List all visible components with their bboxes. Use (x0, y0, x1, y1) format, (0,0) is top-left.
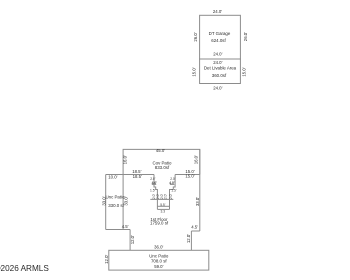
svg-text:45.0': 45.0' (156, 148, 165, 153)
svg-text:10.0': 10.0' (108, 174, 117, 179)
svg-text:26.0': 26.0' (243, 32, 248, 41)
svg-text:833.0sf: 833.0sf (155, 165, 170, 170)
svg-text:24.0': 24.0' (213, 9, 222, 14)
svg-text:33.0': 33.0' (101, 196, 106, 205)
svg-text:12.0': 12.0' (186, 234, 191, 243)
svg-text:330.0 sf: 330.0 sf (108, 203, 124, 208)
svg-text:624.0sf: 624.0sf (211, 38, 226, 43)
svg-text:24.0': 24.0' (213, 52, 222, 57)
svg-text:1.5': 1.5' (150, 188, 156, 192)
svg-text:15.0': 15.0' (242, 67, 247, 76)
svg-text:33.0': 33.0' (195, 197, 200, 206)
svg-text:15.0': 15.0' (185, 174, 194, 179)
svg-text:1.5': 1.5' (171, 188, 177, 192)
svg-text:24.0': 24.0' (213, 85, 222, 90)
svg-text:4.5': 4.5' (191, 225, 198, 230)
svg-text:36.0': 36.0' (154, 245, 163, 250)
svg-text:4.0': 4.0' (152, 181, 158, 185)
svg-text:16.0': 16.0' (194, 155, 199, 164)
svg-text:3.3: 3.3 (161, 210, 166, 214)
svg-text:59.0': 59.0' (154, 264, 163, 269)
svg-text:4.5': 4.5' (122, 224, 129, 229)
svg-text:Det Livable Area: Det Livable Area (204, 65, 237, 70)
svg-text:5.5': 5.5' (160, 203, 166, 207)
svg-text:1759.0 sf: 1759.0 sf (150, 221, 169, 226)
svg-text:15.0': 15.0' (191, 67, 196, 76)
svg-text:24.0': 24.0' (213, 60, 222, 65)
svg-text:33.0': 33.0' (124, 196, 129, 205)
svg-text:12.0': 12.0' (104, 255, 109, 264)
svg-text:2.0': 2.0' (169, 194, 173, 200)
svg-text:360.0sf: 360.0sf (212, 73, 227, 78)
svg-text:©2026 ARMLS: ©2026 ARMLS (0, 264, 49, 273)
svg-text:708.0 sf: 708.0 sf (151, 258, 167, 263)
svg-text:DT Garage: DT Garage (209, 31, 231, 36)
svg-text:26.0': 26.0' (193, 32, 198, 41)
svg-text:12.0': 12.0' (130, 235, 135, 244)
svg-text:4.0': 4.0' (169, 181, 175, 185)
svg-text:16.0': 16.0' (123, 155, 128, 164)
svg-text:2.0': 2.0' (164, 194, 168, 200)
svg-text:Unc Patio: Unc Patio (105, 195, 125, 200)
svg-text:18.5': 18.5' (133, 174, 142, 179)
